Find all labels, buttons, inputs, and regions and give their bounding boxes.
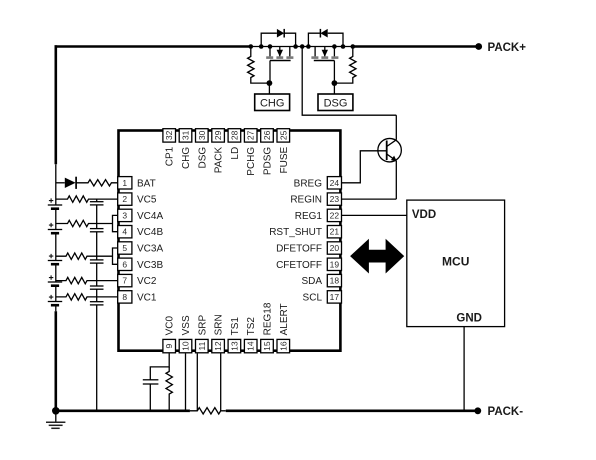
svg-text:SRN: SRN bbox=[214, 314, 225, 335]
IC U1 pin 10 VSS bbox=[179, 315, 192, 353]
resistor R4 (VC3 filter) bbox=[56, 253, 113, 259]
node PACK- terminal dot bbox=[474, 407, 481, 414]
IC U1 pin 3 VC4A bbox=[118, 209, 164, 222]
IC U1 pin 32 CP1 bbox=[163, 129, 176, 167]
battery cell 5 (bottom) bbox=[48, 295, 62, 305]
IC U1 pin 11 SRP bbox=[196, 315, 209, 353]
svg-text:28: 28 bbox=[229, 130, 239, 140]
IC U1 pin 17 SCL bbox=[303, 291, 342, 304]
svg-text:12: 12 bbox=[213, 341, 223, 351]
IC U1 pin 25 FUSE bbox=[277, 129, 290, 174]
svg-text:BAT: BAT bbox=[137, 178, 156, 189]
wire PACK+ rail right thick segment bbox=[353, 45, 479, 48]
svg-text:PCHG: PCHG bbox=[246, 147, 257, 176]
IC U1 pin 18 SDA bbox=[301, 274, 341, 287]
svg-text:7: 7 bbox=[122, 276, 127, 286]
IC U1 pin 7 VC2 bbox=[118, 274, 157, 287]
svg-text:PACK: PACK bbox=[214, 146, 225, 173]
wire left vertical trunk thick upper bbox=[54, 45, 57, 164]
svg-text:20: 20 bbox=[330, 243, 340, 253]
capacitor C4 (VC2-VC1) bbox=[90, 286, 104, 289]
svg-text:REG1: REG1 bbox=[295, 211, 323, 222]
svg-text:15: 15 bbox=[262, 341, 272, 351]
node PACK+ terminal dot bbox=[475, 43, 482, 50]
svg-text:VC4B: VC4B bbox=[137, 227, 163, 238]
wire SRP pin 11 to sense resistor bbox=[196, 353, 198, 410]
svg-text:PACK+: PACK+ bbox=[488, 42, 527, 54]
transistor Q3 (NPN regulator pass transistor) bbox=[378, 115, 402, 199]
IC U1 pin 14 TS2 bbox=[244, 317, 257, 353]
svg-text:5: 5 bbox=[122, 243, 127, 253]
capacitor C2 (VC4-VC3) bbox=[90, 229, 104, 232]
wire C6 bottom to PACK- rail bbox=[149, 384, 151, 411]
IC U1 pin 28 LD bbox=[228, 129, 241, 160]
svg-text:VC3A: VC3A bbox=[137, 244, 163, 255]
resistor R9 (VC0 pulldown) bbox=[166, 367, 172, 411]
svg-text:14: 14 bbox=[246, 341, 256, 351]
svg-text:21: 21 bbox=[330, 227, 340, 237]
svg-text:29: 29 bbox=[213, 130, 223, 140]
IC U1 pin 22 REG1 bbox=[295, 209, 342, 222]
transistor Q2 (DSG N-FET) body diode bbox=[308, 29, 343, 47]
capacitor C6 (VC0 filter) bbox=[143, 380, 159, 384]
svg-text:PACK-: PACK- bbox=[488, 406, 524, 418]
IC U1 pin 24 BREG bbox=[294, 177, 342, 190]
IC U1 pin 21 RST_SHUT bbox=[269, 226, 341, 239]
node top rail junction dots bbox=[249, 44, 356, 49]
ground bbox=[46, 411, 65, 429]
svg-text:VC4A: VC4A bbox=[137, 211, 163, 222]
resistor R5 (VC2 filter) bbox=[56, 277, 118, 283]
svg-text:SCL: SCL bbox=[303, 292, 323, 303]
svg-text:VC1: VC1 bbox=[137, 292, 157, 303]
resistor R8 (DSG gate resistor) bbox=[334, 47, 356, 84]
svg-text:1: 1 bbox=[122, 178, 127, 188]
capacitor C3 (VC3-VC2) bbox=[90, 260, 104, 263]
svg-text:DSG: DSG bbox=[324, 97, 348, 109]
capacitor C1 (VC5-VC4) bbox=[90, 202, 104, 205]
IC U1 pin 30 DSG bbox=[196, 129, 209, 169]
transistor Q2 (DSG N-FET) bbox=[311, 47, 338, 84]
node DSG gate junction bbox=[332, 80, 338, 86]
svg-text:2: 2 bbox=[122, 194, 127, 204]
svg-text:DSG: DSG bbox=[197, 147, 208, 169]
svg-text:32: 32 bbox=[164, 130, 174, 140]
wire Q3 base to BREG pin 24 bbox=[342, 151, 387, 183]
wire SRN pin 12 to sense resistor bbox=[220, 353, 222, 410]
wire left vertical trunk thin (battery stack) bbox=[55, 164, 57, 311]
IC U1 pin 12 SRN bbox=[212, 314, 225, 353]
svg-text:VC5: VC5 bbox=[137, 195, 157, 206]
wire VSS pin 10 to PACK- rail bbox=[185, 353, 187, 410]
IC U1 pin 6 VC3B bbox=[118, 258, 164, 271]
wire VC4A/VC4B joining bracket bbox=[113, 215, 118, 231]
IC U1 pin 9 VC0 bbox=[163, 316, 176, 353]
transistor Q1 (CHG N-FET) body diode bbox=[261, 29, 295, 47]
resistor R1 (BAT series resistor) bbox=[76, 180, 118, 186]
IC U1 pin 1 BAT bbox=[118, 177, 156, 190]
svg-text:26: 26 bbox=[262, 130, 272, 140]
battery cell 2 bbox=[48, 223, 62, 233]
svg-text:VSS: VSS bbox=[181, 315, 192, 335]
diode D1 (BAT series diode) bbox=[65, 177, 76, 189]
IC U1 pin 4 VC4B bbox=[118, 226, 164, 239]
IC U1 pin 2 VC5 bbox=[118, 193, 157, 206]
wire mid-node to Q3 collector bbox=[302, 47, 396, 116]
wire PACK+ rail left thick segment bbox=[55, 45, 251, 48]
node I2C bidirectional arrow (SDA/SCL to MCU) bbox=[350, 239, 404, 274]
resistor R10 (current sense resistor) bbox=[190, 408, 226, 414]
wire VC3A/VC3B joining bracket bbox=[113, 248, 118, 264]
IC U1 pin 27 PCHG bbox=[244, 129, 257, 176]
wire PACK- rail right thick segment bbox=[226, 409, 478, 412]
svg-text:PDSG: PDSG bbox=[263, 147, 274, 176]
node DSG net label box bbox=[318, 94, 353, 111]
svg-text:VC0: VC0 bbox=[165, 316, 176, 336]
svg-text:25: 25 bbox=[278, 130, 288, 140]
svg-text:17: 17 bbox=[330, 292, 340, 302]
svg-text:SDA: SDA bbox=[301, 276, 322, 287]
svg-text:FUSE: FUSE bbox=[279, 146, 290, 173]
wire cell-balance capacitor column bbox=[96, 199, 98, 411]
svg-text:18: 18 bbox=[330, 276, 340, 286]
svg-text:DFETOFF: DFETOFF bbox=[276, 244, 322, 255]
svg-text:VDD: VDD bbox=[412, 209, 436, 221]
IC U1 pin 29 PACK bbox=[212, 129, 225, 174]
svg-text:REGIN: REGIN bbox=[290, 195, 322, 206]
svg-text:REG18: REG18 bbox=[263, 302, 274, 335]
svg-text:ALERT: ALERT bbox=[279, 303, 290, 335]
svg-text:MCU: MCU bbox=[442, 255, 469, 269]
svg-text:CHG: CHG bbox=[181, 147, 192, 169]
svg-text:8: 8 bbox=[122, 292, 127, 302]
svg-text:13: 13 bbox=[229, 341, 239, 351]
resistor R6 (VC1 filter) bbox=[56, 294, 118, 300]
MCU U2 box bbox=[407, 200, 505, 327]
resistor R2 (VC5 filter) bbox=[56, 196, 118, 202]
wire REG1 pin 22 to MCU VDD bbox=[342, 214, 407, 216]
battery cell 1 (top) bbox=[48, 198, 62, 208]
wire DSG gate to label box bbox=[333, 83, 335, 94]
svg-text:27: 27 bbox=[246, 130, 256, 140]
wire Q3 emitter to REGIN pin 23 bbox=[342, 198, 396, 200]
capacitor C5 (VC1-VC0) bbox=[90, 302, 104, 305]
wire MCU GND to PACK- rail bbox=[463, 327, 465, 411]
resistor R3 (VC4 filter) bbox=[56, 220, 113, 226]
IC U1 (battery monitor) body bbox=[119, 131, 341, 351]
wire BAT row anode lead bbox=[56, 182, 65, 184]
wire PACK- rail left thick segment bbox=[56, 409, 190, 412]
svg-text:CHG: CHG bbox=[260, 97, 284, 109]
svg-text:3: 3 bbox=[122, 210, 127, 220]
svg-text:31: 31 bbox=[181, 130, 191, 140]
node CHG net label box bbox=[255, 94, 290, 111]
IC U1 pin 15 REG18 bbox=[261, 302, 274, 353]
svg-text:22: 22 bbox=[330, 210, 340, 220]
svg-text:CFETOFF: CFETOFF bbox=[276, 260, 322, 271]
node CHG gate junction bbox=[267, 80, 273, 86]
svg-text:9: 9 bbox=[164, 343, 174, 348]
wire PACK+ rail thin segment through FETs bbox=[251, 46, 353, 48]
wire CHG gate to label box bbox=[268, 83, 270, 94]
svg-text:TS2: TS2 bbox=[246, 317, 257, 336]
svg-text:SRP: SRP bbox=[197, 315, 208, 336]
resistor R7 (CHG gate resistor) bbox=[248, 47, 270, 84]
transistor Q1 (CHG N-FET) bbox=[266, 47, 293, 84]
svg-text:16: 16 bbox=[278, 341, 288, 351]
IC U1 pin 26 PDSG bbox=[261, 129, 274, 175]
wire left vertical trunk thick lower bbox=[54, 311, 57, 411]
svg-text:VC2: VC2 bbox=[137, 276, 157, 287]
svg-text:GND: GND bbox=[456, 312, 482, 324]
wire VC0 pin 9 branch bbox=[150, 353, 169, 379]
svg-text:BREG: BREG bbox=[294, 178, 323, 189]
IC U1 pin 20 DFETOFF bbox=[276, 242, 341, 255]
svg-text:LD: LD bbox=[230, 147, 241, 160]
svg-text:11: 11 bbox=[197, 341, 207, 350]
svg-text:VC3B: VC3B bbox=[137, 260, 163, 271]
battery cell 3 bbox=[48, 254, 62, 264]
svg-text:24: 24 bbox=[330, 178, 340, 188]
IC U1 pin 8 VC1 bbox=[118, 291, 157, 304]
IC U1 pin 13 TS1 bbox=[228, 317, 241, 353]
IC U1 pin 19 CFETOFF bbox=[276, 258, 341, 271]
battery cell 4 bbox=[48, 275, 62, 285]
svg-text:30: 30 bbox=[197, 130, 207, 140]
IC U1 pin 5 VC3A bbox=[118, 242, 164, 255]
svg-text:19: 19 bbox=[330, 259, 340, 269]
IC U1 pin 23 REGIN bbox=[290, 193, 341, 206]
svg-text:TS1: TS1 bbox=[230, 317, 241, 336]
svg-text:10: 10 bbox=[181, 341, 191, 351]
svg-text:CP1: CP1 bbox=[165, 146, 176, 166]
svg-text:6: 6 bbox=[122, 259, 127, 269]
IC U1 pin 31 CHG bbox=[179, 129, 192, 169]
IC U1 pin 16 ALERT bbox=[277, 303, 290, 352]
svg-text:RST_SHUT: RST_SHUT bbox=[269, 227, 322, 238]
node ground junction dot bbox=[52, 407, 60, 415]
svg-text:23: 23 bbox=[330, 194, 340, 204]
svg-text:4: 4 bbox=[122, 227, 127, 237]
